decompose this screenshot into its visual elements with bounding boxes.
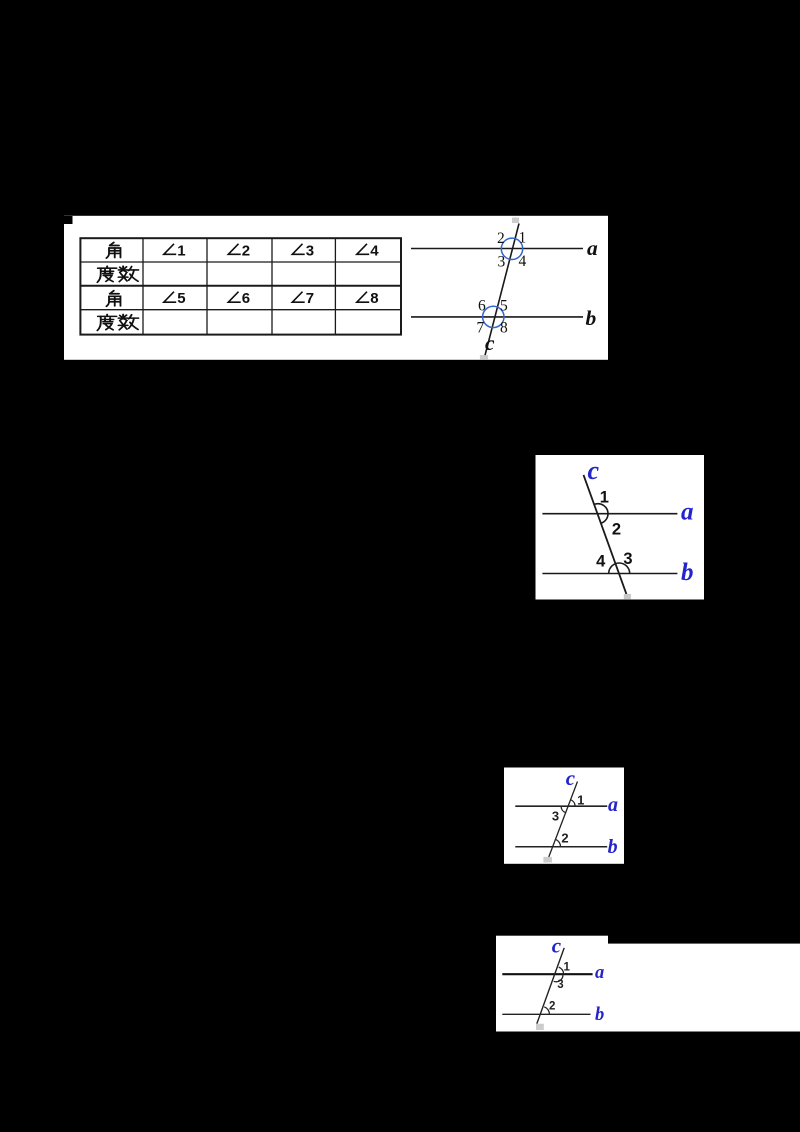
svg-text:b: b (608, 836, 618, 858)
svg-text:1: 1 (519, 230, 527, 247)
svg-text:6: 6 (242, 290, 250, 307)
svg-text:4: 4 (519, 253, 527, 270)
svg-text:c: c (485, 331, 495, 355)
svg-text:b: b (595, 1005, 604, 1025)
svg-text:2: 2 (242, 242, 250, 259)
svg-text:a: a (595, 963, 604, 983)
svg-text:2: 2 (612, 520, 621, 538)
svg-text:7: 7 (477, 320, 485, 337)
svg-text:a: a (608, 794, 618, 816)
svg-text:a: a (681, 499, 694, 526)
svg-text:6: 6 (478, 298, 486, 315)
svg-text:a: a (587, 236, 598, 260)
svg-text:7: 7 (306, 290, 314, 307)
svg-text:8: 8 (370, 290, 378, 307)
svg-text:4: 4 (596, 553, 606, 571)
svg-text:c: c (566, 766, 576, 790)
svg-text:1: 1 (600, 488, 609, 506)
svg-text:3: 3 (498, 254, 506, 271)
svg-text:8: 8 (500, 320, 508, 337)
svg-text:2: 2 (549, 1000, 555, 1012)
svg-text:2: 2 (561, 830, 568, 845)
svg-text:1: 1 (177, 242, 185, 259)
svg-text:4: 4 (370, 242, 379, 259)
svg-text:3: 3 (557, 979, 563, 991)
svg-text:3: 3 (623, 550, 632, 568)
svg-text:3: 3 (306, 242, 314, 259)
svg-text:1: 1 (563, 962, 570, 974)
svg-text:5: 5 (177, 290, 185, 307)
svg-text:b: b (681, 559, 694, 586)
svg-text:5: 5 (500, 298, 508, 315)
svg-text:c: c (552, 934, 562, 958)
svg-text:b: b (586, 306, 597, 330)
svg-text:1: 1 (577, 793, 584, 808)
svg-text:c: c (588, 456, 600, 485)
svg-text:2: 2 (497, 230, 505, 247)
svg-text:3: 3 (552, 809, 559, 824)
